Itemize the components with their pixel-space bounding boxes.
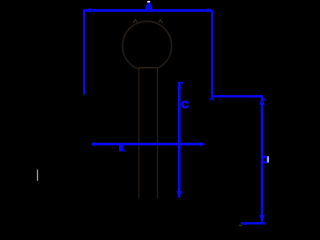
arrowhead D up (259, 98, 264, 105)
label B (119, 145, 125, 152)
mold tick left on ball top (133, 20, 137, 23)
dimension line B horizontal (92, 143, 201, 146)
mold tick right on ball top (159, 20, 163, 23)
small arrow at step line left (208, 97, 215, 101)
step line to D dimension (211, 95, 263, 97)
svg-text:A: A (145, 2, 153, 14)
dimension line A horizontal (84, 9, 212, 12)
pin stem right edge (157, 68, 159, 199)
pin stem fill mask (140, 68, 157, 199)
arrowhead B left (91, 142, 96, 147)
faint gray smudge below bottom-left arrow (239, 225, 242, 226)
svg-text:C: C (181, 100, 189, 111)
pin stem top edge (138, 67, 158, 69)
tick at C top (178, 82, 184, 84)
dimension line C vertical (178, 83, 181, 198)
tick right of D up arrow (262, 99, 265, 101)
arrowhead C up (177, 82, 182, 89)
white tip on label A (147, 1, 150, 3)
gray tick mark lower left (37, 170, 39, 181)
arrowhead C down (177, 191, 182, 199)
small arrow at bottom extension left (240, 222, 246, 226)
arrowhead D down (259, 215, 264, 222)
fading tail of left extension (83, 94, 85, 96)
light accent right of D (267, 156, 269, 162)
bottom extension line of D (241, 222, 265, 224)
arrowhead A right (208, 8, 214, 13)
dim lower arc of ball (125, 54, 170, 69)
arrowhead B right (200, 142, 205, 147)
arrowhead A left (84, 8, 91, 13)
extension line right of A (211, 10, 213, 96)
ball head circle of pin (122, 21, 171, 70)
dimension line D vertical (261, 98, 263, 223)
pin stem left edge (138, 68, 140, 199)
extension line left of A (83, 10, 85, 94)
